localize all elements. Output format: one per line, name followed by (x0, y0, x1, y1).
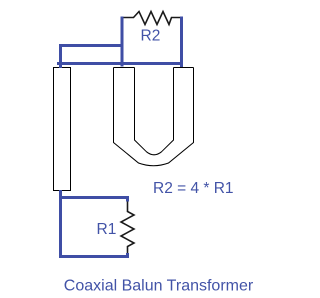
svg-text:R2 = 4 * R1: R2 = 4 * R1 (153, 180, 234, 197)
svg-text:R1: R1 (97, 221, 117, 238)
svg-text:R2: R2 (141, 27, 161, 44)
svg-text:Coaxial Balun Transformer: Coaxial Balun Transformer (64, 278, 254, 295)
